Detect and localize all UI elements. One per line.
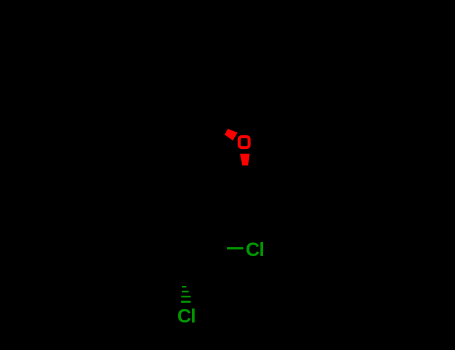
bond to right Cl (green half-bond) [227,247,243,249]
hashed wedge: dash 3 [181,296,190,298]
hashed wedge to bottom Cl: dash 1 [182,286,186,288]
hashed wedge: dash 4 [181,301,191,303]
oxygen atom label O [239,137,249,148]
wedge bond below O (red solid wedge, truncated) [240,154,250,166]
svg-text:Cl: Cl [177,305,195,327]
svg-text:Cl: Cl [246,239,264,261]
wedge bond to O (upper-left red solid wedge) [225,129,238,141]
hashed wedge: dash 2 [182,291,189,293]
